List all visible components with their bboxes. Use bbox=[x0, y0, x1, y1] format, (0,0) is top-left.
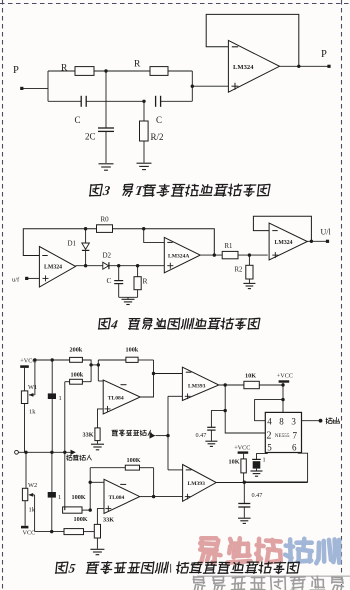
capacitor 0.47 (lower) to ground bbox=[243, 482, 245, 503]
node junction diode branch bbox=[51, 358, 54, 361]
wire node to op-amp + bbox=[191, 71, 193, 101]
resistor R/2 to ground bbox=[143, 101, 145, 121]
svg-text:10K: 10K bbox=[245, 373, 256, 380]
label output bbox=[326, 418, 332, 424]
wire bbox=[90, 481, 104, 483]
wire preset rail bbox=[18, 451, 70, 453]
node junction bbox=[281, 383, 284, 386]
svg-text:3: 3 bbox=[291, 417, 296, 427]
svg-text:2: 2 bbox=[267, 431, 272, 442]
op-amp U1 LM324 bbox=[228, 40, 279, 92]
svg-text:P: P bbox=[321, 49, 327, 60]
op-amp U4 LM393 (lower comparator) bbox=[183, 465, 217, 502]
svg-text:R/2: R/2 bbox=[151, 132, 164, 142]
wire +VCC rail bbox=[35, 359, 70, 361]
caption fig4 bbox=[98, 317, 260, 331]
wire bbox=[94, 70, 150, 72]
capacitor 2C to ground bbox=[105, 71, 107, 128]
wire bbox=[84, 531, 95, 533]
wire bbox=[22, 87, 48, 89]
op-amp U3 LM393 (upper comparator) bbox=[182, 367, 218, 400]
node junction bbox=[89, 363, 92, 366]
svg-text:NE555: NE555 bbox=[275, 433, 290, 439]
svg-text:1k: 1k bbox=[29, 409, 36, 416]
svg-text:8: 8 bbox=[279, 417, 284, 427]
svg-text:2C: 2C bbox=[85, 132, 96, 142]
resistor R (second) bbox=[150, 67, 168, 76]
wire bbox=[24, 368, 26, 391]
node junction rail tap bbox=[142, 227, 145, 230]
wire joint to U2 minus bbox=[91, 364, 98, 366]
capacitor 0.47 (upper) to ground bbox=[211, 411, 225, 428]
node junction C bbox=[117, 264, 120, 267]
wire U4 minus bbox=[168, 469, 183, 471]
svg-text:LM393: LM393 bbox=[188, 383, 206, 389]
svg-text:u/f: u/f bbox=[12, 277, 20, 284]
watermark underline bbox=[197, 575, 350, 577]
watermark yiditul training bbox=[200, 538, 220, 563]
svg-text:+VCC: +VCC bbox=[234, 444, 250, 451]
wire -VCC rail bbox=[35, 531, 64, 533]
resistor 10K (pullup vertical) bbox=[243, 454, 245, 459]
svg-text:C: C bbox=[107, 276, 112, 285]
svg-text:R2: R2 bbox=[235, 267, 244, 274]
node junction U3 out bbox=[224, 383, 227, 386]
svg-text:LM324: LM324 bbox=[233, 64, 254, 71]
svg-text:7: 7 bbox=[293, 431, 298, 441]
node junction bbox=[50, 530, 53, 533]
svg-text:0.47: 0.47 bbox=[196, 432, 207, 439]
svg-text:R1: R1 bbox=[225, 243, 233, 250]
wire W1 bottom bbox=[24, 404, 26, 453]
svg-text:33K: 33K bbox=[83, 432, 94, 439]
resistor 100K (input B) bbox=[64, 529, 84, 535]
svg-text:100k: 100k bbox=[71, 372, 84, 379]
capacitor C (second) bbox=[155, 96, 157, 107]
watermark slogan text bbox=[193, 576, 205, 590]
svg-text:W1: W1 bbox=[28, 384, 37, 391]
resistor R to ground bbox=[137, 266, 139, 277]
node junction bottom mid bbox=[142, 100, 145, 103]
node U output terminal bbox=[326, 240, 329, 243]
resistor 100k (to minus) bbox=[70, 379, 83, 384]
wire U4 output bbox=[216, 482, 307, 484]
node junction bbox=[33, 358, 36, 361]
diode D1 bbox=[85, 229, 87, 243]
wire bbox=[153, 468, 155, 497]
node junction bbox=[281, 398, 284, 401]
wire bbox=[65, 381, 70, 383]
resistor R (first) bbox=[75, 67, 94, 76]
node preset input terminal bbox=[15, 450, 19, 454]
svg-text:100K: 100K bbox=[127, 457, 141, 464]
op-amp A3 LM324 bbox=[269, 223, 307, 260]
wire bbox=[76, 265, 103, 267]
op-amp U2 TL084 bbox=[103, 380, 140, 414]
node junction D1 top bbox=[84, 227, 87, 230]
svg-text:R: R bbox=[143, 277, 148, 286]
wire U2 plus to 33K bbox=[98, 409, 104, 428]
resistor 33K bbox=[95, 428, 100, 441]
wire bbox=[259, 384, 283, 386]
svg-text:1: 1 bbox=[263, 457, 266, 464]
node junction bbox=[89, 481, 92, 484]
svg-text:10K: 10K bbox=[229, 459, 240, 466]
potentiometer W2 1k bbox=[25, 452, 27, 488]
node output terminal bbox=[319, 419, 323, 423]
wire pin6 wrap to U4 output bbox=[244, 453, 307, 482]
wire bbox=[47, 71, 49, 101]
node A1 output junction bbox=[84, 264, 87, 267]
resistor 100K feedback U5 bbox=[90, 467, 125, 469]
resistor R0 bbox=[97, 225, 113, 233]
wire output bbox=[307, 240, 327, 242]
svg-text:5: 5 bbox=[267, 443, 272, 453]
wire U5 output bbox=[140, 496, 154, 498]
wire U4 plus bbox=[154, 496, 183, 498]
wire wiper W2 bbox=[34, 495, 36, 532]
wire to A2 minus bbox=[144, 229, 165, 243]
wire bbox=[97, 360, 99, 381]
wire bbox=[168, 70, 192, 72]
node junction bbox=[89, 508, 92, 511]
node junction bbox=[63, 451, 66, 454]
wire to pin4 bbox=[255, 400, 283, 421]
svg-text:C: C bbox=[156, 115, 162, 125]
node junction U5 out bbox=[152, 495, 155, 498]
potentiometer W1 1k bbox=[21, 391, 27, 404]
feedback wire U1 bbox=[206, 14, 299, 66]
ground below 2C bbox=[99, 163, 114, 165]
svg-text:C: C bbox=[75, 115, 81, 125]
resistor 100k feedback U2 bbox=[98, 359, 126, 361]
wire bbox=[48, 70, 75, 72]
wire bbox=[200, 254, 222, 256]
svg-text:LM324A: LM324A bbox=[168, 253, 189, 259]
wire bbox=[109, 265, 164, 267]
op-amp U5 TL084 (lower) bbox=[104, 479, 140, 513]
wire U3 output bbox=[219, 384, 244, 386]
node junction bbox=[24, 451, 27, 454]
resistor R1 bbox=[222, 251, 238, 258]
feedback wire A1 to R0 rail bbox=[23, 229, 96, 256]
svg-text:100K: 100K bbox=[72, 494, 86, 501]
wire bbox=[64, 507, 66, 510]
svg-text:4: 4 bbox=[267, 417, 272, 427]
svg-text:100k: 100k bbox=[126, 347, 139, 354]
diode 2 (lower) bbox=[51, 452, 53, 492]
svg-text:6: 6 bbox=[292, 443, 297, 453]
node junction R2 bbox=[248, 253, 251, 256]
label preset input bbox=[66, 455, 72, 461]
wire long vertical preset bbox=[64, 382, 66, 510]
svg-text:D1: D1 bbox=[68, 240, 77, 248]
svg-text:1: 1 bbox=[58, 494, 61, 501]
wire U3 plus bbox=[168, 395, 182, 397]
node junction bbox=[50, 451, 53, 454]
caption fig3 bbox=[89, 183, 270, 198]
wire bbox=[238, 254, 268, 256]
svg-text:D2: D2 bbox=[103, 252, 112, 260]
power -VCC terminal bbox=[21, 526, 28, 529]
wire to U3 minus bbox=[154, 373, 183, 375]
ground below 33K lower bbox=[90, 548, 104, 550]
wire bbox=[82, 360, 91, 382]
svg-text:33K: 33K bbox=[103, 517, 114, 524]
node junction top mid bbox=[104, 69, 107, 72]
svg-text:LM393: LM393 bbox=[188, 481, 206, 487]
svg-text:R: R bbox=[134, 60, 141, 70]
svg-text:R0: R0 bbox=[101, 216, 110, 224]
ground below R2 bbox=[243, 282, 255, 284]
svg-text:R: R bbox=[61, 64, 68, 74]
wire bbox=[282, 383, 284, 413]
svg-text:0.47: 0.47 bbox=[252, 492, 263, 499]
resistor R2 to ground bbox=[248, 255, 250, 265]
diode 1 (upper) bbox=[51, 360, 53, 393]
svg-text:+VCC: +VCC bbox=[277, 372, 293, 379]
capacitor C (first) bbox=[80, 96, 82, 107]
wire W2 bottom bbox=[24, 501, 26, 526]
node junction bbox=[97, 363, 100, 366]
op-amp A1 LM324 bbox=[39, 247, 75, 288]
ground below 33K bbox=[91, 443, 104, 445]
node A2 output junction bbox=[213, 253, 216, 256]
wire vertical pf input bbox=[167, 396, 169, 470]
node output junction bbox=[310, 240, 313, 243]
wire bbox=[82, 381, 91, 383]
op-amp A2 LM324A bbox=[164, 237, 200, 272]
resistor 200k bbox=[70, 357, 83, 362]
node output junction bbox=[297, 65, 300, 68]
feedback wire A3 bbox=[253, 216, 311, 241]
svg-text:1: 1 bbox=[59, 395, 62, 402]
wire pin3 output bbox=[302, 420, 321, 422]
wire bbox=[48, 100, 81, 102]
wire output bbox=[280, 65, 330, 67]
wire rail to A2 output bbox=[113, 229, 215, 255]
svg-text:200k: 200k bbox=[70, 347, 83, 354]
svg-text:LM324: LM324 bbox=[275, 240, 293, 246]
node P output terminal bbox=[327, 65, 330, 68]
ground below R/2 bbox=[137, 162, 152, 164]
svg-text:TL084: TL084 bbox=[109, 495, 125, 501]
wire wiper W1 bbox=[34, 360, 36, 395]
wire bbox=[86, 100, 144, 102]
wire bbox=[27, 277, 40, 279]
wire U3 out down to pin2 bbox=[225, 385, 265, 433]
svg-text:VCC: VCC bbox=[23, 530, 36, 537]
node junction pf bbox=[166, 434, 169, 437]
svg-text:TL084: TL084 bbox=[108, 395, 124, 401]
wire pin5 to cap bbox=[257, 453, 268, 460]
node junction cap tap bbox=[224, 409, 227, 412]
caption fig5 bbox=[55, 561, 300, 576]
svg-text:W2: W2 bbox=[28, 482, 37, 489]
svg-text:P: P bbox=[13, 65, 19, 76]
node junction U4 out bbox=[243, 481, 246, 484]
node junction U2 out bbox=[152, 372, 155, 375]
capacitor 1 (pin5) to ground bbox=[252, 458, 261, 460]
resistor 33K (lower vertical) bbox=[97, 509, 104, 525]
ground for C and R bbox=[119, 296, 138, 298]
diode D2 bbox=[103, 262, 109, 269]
label power factor input with arrow bbox=[112, 430, 118, 436]
wire bbox=[161, 100, 193, 102]
node junction R bbox=[136, 264, 139, 267]
wire U2 output bbox=[140, 360, 153, 397]
resistor 10K (upper) bbox=[244, 381, 259, 388]
svg-text:100K: 100K bbox=[74, 516, 88, 523]
wire U5 minus vertical bbox=[89, 468, 91, 510]
resistor 100K (input A) bbox=[63, 507, 82, 513]
svg-text:U/l: U/l bbox=[321, 228, 332, 237]
svg-text:LM324: LM324 bbox=[44, 265, 62, 271]
capacitor C to ground bbox=[118, 266, 120, 281]
wire bbox=[98, 380, 103, 382]
timer IC NE555 bbox=[265, 412, 301, 452]
